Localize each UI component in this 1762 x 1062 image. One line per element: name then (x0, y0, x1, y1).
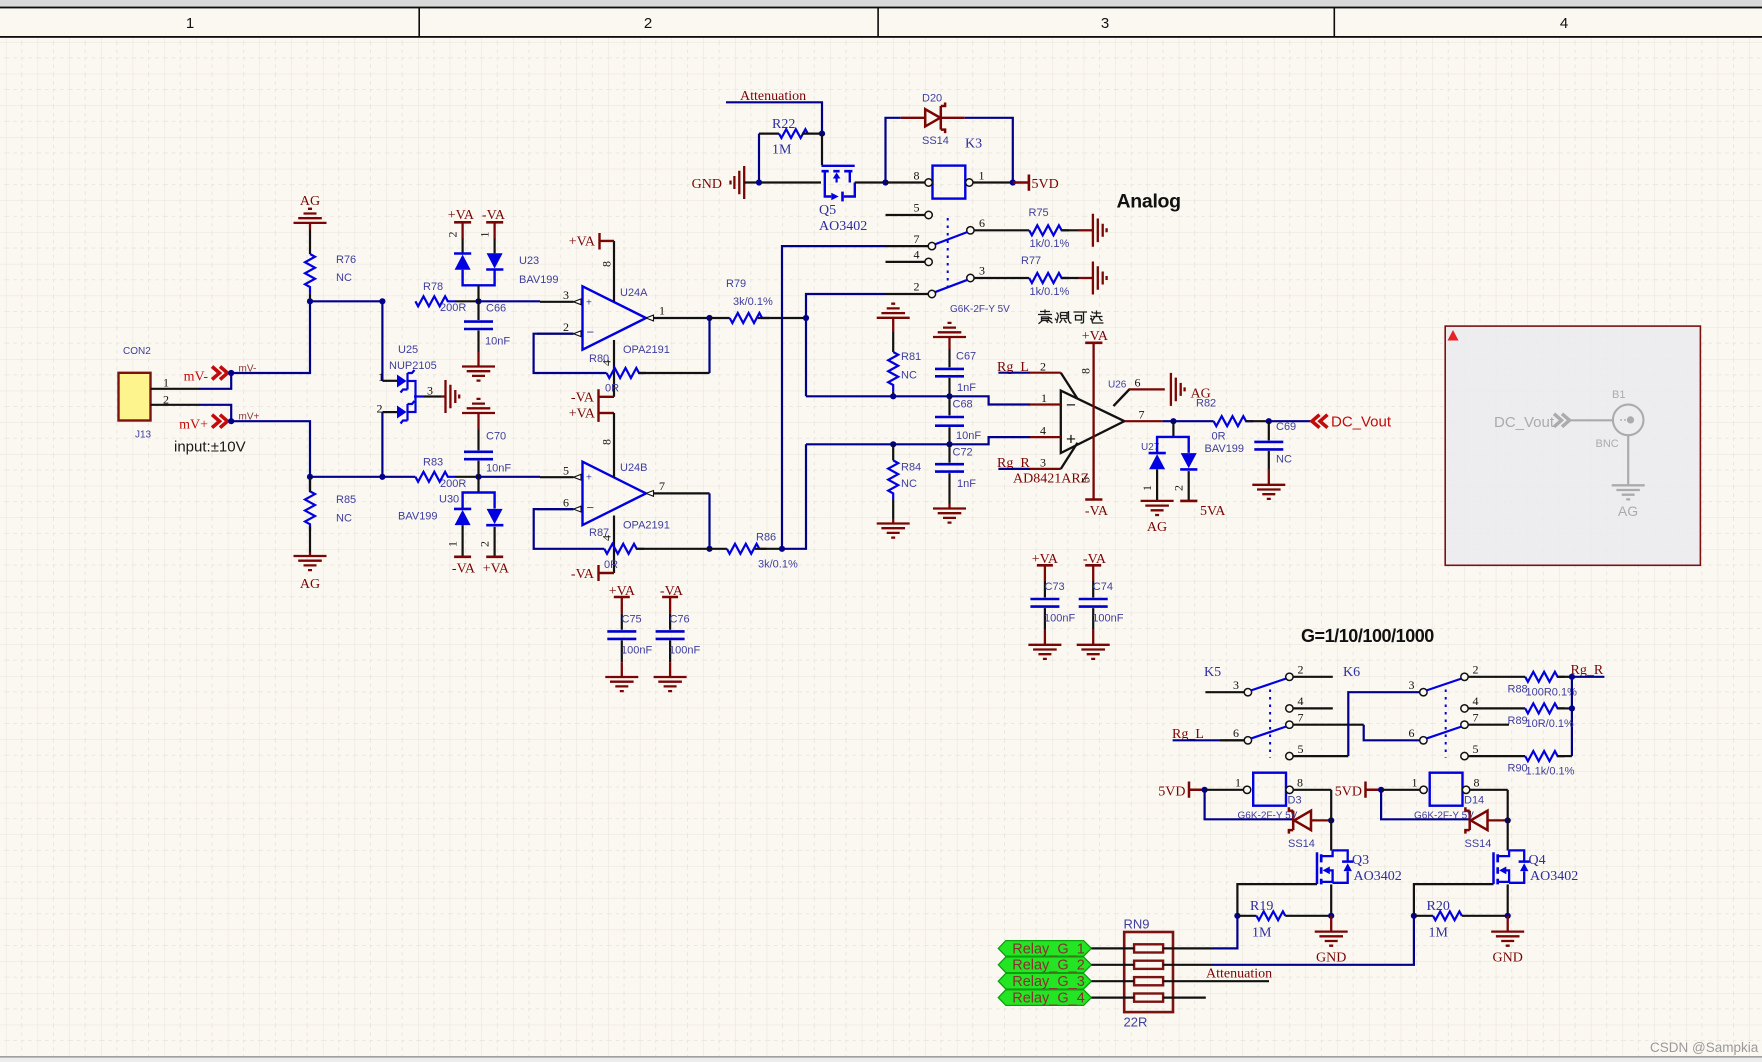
wire node to U24A pin3 (479, 300, 541, 302)
U25 diode 2 (bidirectional) (397, 406, 407, 419)
svg-text:10nF: 10nF (486, 463, 511, 475)
node R89 junction (1569, 705, 1575, 711)
U27 pin2 lead (1188, 471, 1190, 501)
pin 3 of U26 (1030, 443, 1078, 470)
svg-text:+VA: +VA (448, 208, 475, 223)
pin 3 of K5 (1205, 678, 1251, 696)
svg-text:AO3402: AO3402 (819, 219, 867, 234)
node U26 output / U27 (1170, 418, 1176, 424)
wire node to U24B pin5 (479, 476, 541, 478)
ground above C67 (933, 323, 966, 349)
U25 diode 1 (bidirectional) (397, 375, 407, 388)
pin 8 of K3 (886, 169, 933, 187)
svg-text:10nF: 10nF (485, 336, 510, 348)
svg-text:C68: C68 (953, 399, 973, 411)
svg-text:J13: J13 (135, 430, 152, 441)
svg-text:100nF: 100nF (669, 645, 700, 657)
svg-text:1: 1 (1235, 776, 1241, 790)
svg-text:+VA: +VA (483, 562, 510, 577)
svg-text:7: 7 (914, 232, 920, 246)
wire Rg_R out (1572, 676, 1605, 678)
wire mV+ from J13.2 down to node (199, 405, 231, 421)
power port -VA above U23 (482, 208, 506, 239)
svg-text:1nF: 1nF (957, 478, 976, 490)
node bus B / R79 (803, 315, 809, 321)
svg-text:8: 8 (1297, 776, 1303, 790)
node C68/C72 on plus row (946, 441, 952, 447)
capacitor C75 100nF (607, 613, 652, 662)
resistor R83 200R (415, 457, 466, 491)
svg-text:CON2: CON2 (123, 346, 151, 357)
ground AG at U26 pin6 (1171, 373, 1211, 406)
pin 4 of K6 (1461, 694, 1525, 712)
pin 7 (output) of U24B (646, 479, 710, 496)
wire K5.7 jog to K6.6 (1364, 725, 1420, 741)
svg-text:2: 2 (1172, 485, 1186, 491)
pin 4 of U26 (1030, 424, 1061, 438)
svg-text:1: 1 (186, 15, 194, 32)
svg-text:NC: NC (336, 513, 352, 525)
svg-text:Relay_G_1: Relay_G_1 (1012, 941, 1085, 957)
svg-text:7: 7 (659, 479, 665, 493)
ground below C72 (933, 504, 966, 523)
svg-text:3: 3 (1409, 678, 1415, 692)
svg-text:7: 7 (1298, 711, 1304, 725)
svg-text:K6: K6 (1343, 665, 1360, 680)
svg-text:-VA: -VA (452, 562, 476, 577)
pin 4 of K3 (stub) (886, 248, 933, 266)
pin 6 of K6 (1409, 726, 1428, 744)
svg-text:7: 7 (1473, 711, 1479, 725)
diode pair U27 BAV199 (1140, 421, 1197, 501)
svg-text:7: 7 (1139, 408, 1145, 422)
U23 common rail (463, 270, 495, 286)
svg-text:2: 2 (478, 541, 492, 547)
svg-text:C72: C72 (953, 447, 973, 459)
wire GND to Q5 (744, 181, 821, 183)
svg-text:R82: R82 (1196, 398, 1216, 410)
resistor R90 1.1k/0.1% (1508, 751, 1575, 777)
node C70/U30 (475, 474, 481, 480)
svg-text:CSDN @Sampkia: CSDN @Sampkia (1650, 1040, 1759, 1055)
wire RN9.4 stub (1163, 996, 1206, 998)
pin 1 of J13 (151, 376, 200, 390)
pin 6 of U24B (537, 496, 581, 513)
svg-text:R75: R75 (1029, 207, 1049, 219)
wire Rg_L to K5 pin6 (1173, 739, 1245, 741)
pin 2 of J13 (151, 393, 200, 407)
svg-text:NC: NC (1276, 454, 1292, 466)
svg-text:D20: D20 (922, 93, 942, 105)
op-amp U24A OPA2191 (583, 286, 670, 356)
header column ruler band (0, 0, 1762, 7)
svg-text:5: 5 (1079, 477, 1093, 483)
wire mV+ node to R85 node (231, 421, 310, 477)
svg-text:RN9: RN9 (1124, 917, 1150, 932)
wire R88 node down to R90 (1571, 677, 1573, 756)
resistor R87 0R (feedback) (589, 527, 710, 571)
svg-text:2: 2 (563, 320, 569, 334)
svg-text:5VD: 5VD (1032, 177, 1059, 192)
svg-text:4: 4 (1040, 424, 1046, 438)
pin 1 of K3 (966, 169, 1013, 187)
U23 diode left (cathode up) (454, 252, 471, 255)
svg-text:1: 1 (163, 376, 169, 390)
svg-text:K3: K3 (965, 137, 982, 152)
svg-text:SS14: SS14 (1288, 838, 1315, 850)
wire flag2 to RN9 (1091, 964, 1134, 966)
diode pair U30 BAV199 (398, 477, 503, 556)
svg-text:1k/0.1%: 1k/0.1% (1030, 238, 1070, 250)
svg-text:2: 2 (914, 280, 920, 294)
power port -VA at U24B pin4 (571, 565, 614, 582)
svg-text:BNC: BNC (1596, 438, 1619, 450)
mechanical link dotted line K3 (947, 218, 949, 289)
node R22/gate junction (819, 131, 825, 137)
svg-text:C73: C73 (1045, 581, 1065, 593)
relay driver D14/Q4 block (1366, 773, 1530, 946)
power port AG top-left (294, 194, 327, 230)
node mV+ junction (228, 418, 234, 424)
node at NUP2105 pin1 branch (379, 298, 385, 304)
svg-text:−: − (1066, 396, 1076, 415)
ground below R84 (877, 519, 910, 538)
U30 diode right (cathode bottom) (487, 509, 503, 524)
ground below C75 (605, 662, 638, 691)
resistor R85 NC (vertical) (305, 477, 356, 531)
svg-text:3: 3 (979, 264, 985, 278)
ghost wire (1571, 419, 1613, 421)
pin 5 of K5 (1286, 742, 1349, 760)
wire R76 to node (309, 294, 311, 302)
svg-text:R78: R78 (423, 281, 443, 293)
resistor R89 10R/0.1% (1508, 703, 1575, 730)
svg-text:BAV199: BAV199 (519, 274, 559, 286)
svg-text:NC: NC (901, 370, 917, 382)
svg-text:2: 2 (446, 232, 460, 238)
power port 5VA below U27 pin2 (1180, 501, 1226, 519)
svg-text:3k/0.1%: 3k/0.1% (733, 296, 773, 308)
svg-text:BAV199: BAV199 (398, 511, 438, 523)
svg-text:R76: R76 (336, 254, 356, 266)
svg-text:U24B: U24B (620, 462, 648, 474)
pin 6 of K3 (967, 216, 1029, 234)
svg-text:G6K-2F-Y 5V: G6K-2F-Y 5V (1414, 811, 1474, 822)
ground (earth) at U25 pin 3 (441, 380, 459, 413)
resistor R88 100R0.1% (1508, 672, 1578, 699)
resistor network RN9 22R (1124, 917, 1174, 1030)
wire U24A feedback loop (534, 334, 607, 373)
svg-text:Relay_G_4: Relay_G_4 (1012, 991, 1085, 1007)
net flag Relay_G_2 (998, 957, 1091, 974)
relay K3 coil box (933, 137, 983, 199)
svg-text:200R: 200R (440, 302, 466, 314)
svg-text:6: 6 (1233, 726, 1239, 740)
U25 pin 2 (382, 411, 397, 413)
resistor R82 0R (1196, 398, 1269, 443)
svg-text:C67: C67 (956, 351, 976, 363)
svg-text:8: 8 (1079, 368, 1093, 374)
svg-text:1: 1 (378, 370, 384, 384)
wire D20 right riser to 5VD node (965, 118, 1013, 183)
svg-text:5: 5 (914, 201, 920, 215)
text 衰减可选 (CJK drawn as strokes) (1038, 310, 1104, 324)
wire minus-input row (bus B corner to AD8421 pin1) (806, 396, 1030, 404)
svg-text:Q4: Q4 (1529, 853, 1546, 868)
svg-text:Attenuation: Attenuation (1206, 967, 1272, 982)
svg-text:G6K-2F-Y 5V: G6K-2F-Y 5V (950, 304, 1010, 315)
svg-text:10R/0.1%: 10R/0.1% (1526, 718, 1575, 730)
wire node down to U25 pin1 (381, 301, 383, 381)
node R84 on plus row (890, 441, 896, 447)
node GND/R22 junction (756, 179, 762, 185)
svg-text:C70: C70 (486, 431, 506, 443)
relay driver D3/Q3 block (1189, 773, 1353, 946)
wire plus-input row (bus B foot to AD8421 pin4) (806, 437, 1030, 444)
svg-text:3: 3 (1101, 15, 1109, 32)
svg-text:1: 1 (1140, 485, 1154, 491)
node U24B feedback junction (706, 546, 712, 552)
power port +VA above U26 (1082, 329, 1109, 344)
svg-text:1: 1 (478, 232, 492, 238)
U27 diode right (cathode bottom) (1181, 453, 1197, 468)
svg-text:2: 2 (1298, 663, 1304, 677)
pin 7 of K3 (886, 232, 936, 250)
capacitor C69 NC (1254, 421, 1296, 469)
ground above R81 (877, 304, 910, 332)
svg-text:-VA: -VA (571, 567, 595, 582)
svg-text:8: 8 (600, 439, 614, 445)
node U24A output (706, 315, 712, 321)
net flag Relay_G_1 (998, 941, 1091, 958)
power port -VA at U24A pin4 (571, 389, 614, 422)
node C66/U23 (475, 298, 481, 304)
relay coil D3 G6K-2F-Y 5V (1238, 795, 1302, 822)
pin 5 of K3 (stub) (886, 201, 933, 219)
switch arm K3 7-6 (935, 232, 968, 245)
pin 3 of K6 (1409, 678, 1428, 696)
svg-text:SS14: SS14 (1465, 838, 1492, 850)
svg-text:2: 2 (163, 393, 169, 407)
wire node up to U25 pin2 (381, 412, 383, 477)
pin 5 of K6 (1461, 742, 1525, 760)
svg-text:−: − (587, 325, 595, 340)
svg-text:2: 2 (1040, 360, 1046, 374)
svg-text:100nF: 100nF (621, 645, 652, 657)
relay coil D14 G6K-2F-Y 5V (1414, 795, 1484, 822)
node R86 output at bus A (779, 546, 785, 552)
svg-text:1nF: 1nF (957, 382, 976, 394)
transistor Q3 AO3402 (1352, 853, 1402, 884)
U23 pin2 lead from +VA (462, 238, 464, 253)
ground below C76 (654, 662, 687, 691)
svg-text:R19: R19 (1250, 899, 1273, 914)
ground above C70 (462, 399, 495, 430)
svg-text:5VD: 5VD (1158, 784, 1185, 799)
svg-text:1M: 1M (1429, 926, 1449, 941)
svg-text:GND: GND (1493, 951, 1523, 966)
ground below C69 (1252, 469, 1285, 499)
svg-text:6: 6 (1135, 376, 1141, 390)
svg-text:22R: 22R (1124, 1015, 1148, 1030)
resistor R84 NC (vertical) (888, 444, 921, 519)
resistor R20 1M (1427, 899, 1450, 941)
wire K6.3 to K5.5 (1348, 692, 1419, 756)
wire node to NUP/R78 node (310, 300, 382, 302)
pin 8 of U26 (supply) (1079, 343, 1094, 500)
svg-text:R83: R83 (423, 457, 443, 469)
power port 5VD (1013, 175, 1059, 193)
svg-text:C66: C66 (486, 303, 506, 315)
svg-text:NC: NC (336, 272, 352, 284)
node Rg_R junction (1569, 674, 1575, 680)
node R76/mV- junction (307, 298, 313, 304)
ground below C73 (1028, 630, 1061, 659)
U25 pin 1 (382, 380, 397, 382)
ghost wire to AG (1627, 435, 1629, 484)
svg-text:−: − (587, 500, 595, 515)
node at NUP2105 pin2 branch (379, 474, 385, 480)
svg-text:R22: R22 (772, 117, 795, 132)
svg-text:4: 4 (1560, 15, 1568, 32)
svg-text:NUP2105: NUP2105 (389, 360, 437, 372)
svg-text:1: 1 (979, 169, 985, 183)
power port +VA below U30 (483, 557, 510, 577)
svg-text:mV-: mV- (184, 370, 209, 385)
wire R78 to C66 node (455, 300, 479, 302)
wire R85 to AG bottom (309, 526, 311, 552)
switch arm K5 3-2 (1251, 679, 1286, 691)
svg-text:U30: U30 (439, 494, 459, 506)
bottom scrollbar strip (0, 1056, 1762, 1057)
ground at R77 (1079, 262, 1107, 295)
svg-text:2: 2 (377, 401, 383, 415)
resistor R81 NC (vertical) (888, 332, 921, 396)
switch arm K5 6-7 (1251, 727, 1286, 739)
pin 7 of K6 (stub) (1461, 711, 1509, 729)
svg-text:G6K-2F-Y 5V: G6K-2F-Y 5V (1238, 811, 1298, 822)
pin 3 of K3 (967, 264, 1029, 282)
U30 pin2 lead (494, 527, 496, 556)
node C67/C68 on minus row (946, 393, 952, 399)
svg-text:U23: U23 (519, 255, 539, 267)
svg-text:R77: R77 (1021, 255, 1041, 267)
svg-text:0R: 0R (604, 559, 618, 571)
pin 2 of K6 (1461, 663, 1525, 681)
svg-text:GND: GND (1316, 951, 1346, 966)
svg-text:input:±10V: input:±10V (174, 439, 246, 456)
svg-text:AG: AG (300, 194, 320, 209)
resistor R76 NC (vertical) (305, 254, 356, 294)
U23 diode right (cathode down) (487, 253, 503, 268)
svg-text:10nF: 10nF (956, 430, 981, 442)
svg-text:C69: C69 (1276, 421, 1296, 433)
svg-text:R20: R20 (1427, 899, 1450, 914)
switch arm K6 6-7 (1426, 727, 1461, 739)
svg-text:BAV199: BAV199 (1205, 443, 1245, 455)
svg-text:100nF: 100nF (1092, 613, 1123, 625)
diode pair U23 BAV199 (446, 232, 559, 302)
svg-text:8: 8 (1474, 776, 1480, 790)
svg-text:1M: 1M (772, 143, 792, 158)
capacitor C66 10nF (464, 301, 510, 352)
node C69 junction (1266, 418, 1272, 424)
ground below C66 (462, 352, 495, 381)
wire RN9.3 Attenuation stub (1163, 980, 1269, 982)
capacitor C73 100nF (1030, 581, 1075, 630)
svg-text:B1: B1 (1612, 389, 1625, 401)
resistor R19 1M (1250, 899, 1273, 941)
svg-text:C74: C74 (1093, 581, 1113, 593)
pin 4 of K5 (stub) (1286, 694, 1333, 712)
resistor R75 1k/0.1% (1029, 207, 1079, 250)
in-amp U26 AD8421ARZ triangle (1013, 380, 1127, 487)
svg-text:D14: D14 (1464, 795, 1484, 807)
wire flag3 to RN9 (1091, 980, 1134, 982)
capacitor C76 100nF (656, 613, 701, 662)
capacitor C70 10nF (464, 430, 511, 477)
svg-text:4: 4 (1298, 694, 1304, 708)
svg-text:2: 2 (1473, 663, 1479, 677)
node R85/mV+ junction (307, 474, 313, 480)
mechanical link dotted K5 (1269, 690, 1271, 758)
wire U24B feedback loop (534, 509, 605, 549)
svg-text:200R: 200R (440, 478, 466, 490)
svg-text:Q3: Q3 (1352, 853, 1369, 868)
U27 pin1 lead (1156, 469, 1158, 500)
power port -VA above C74 (1083, 552, 1107, 581)
connector J13 CON2 (119, 346, 152, 441)
capacitor C67 1nF (935, 349, 976, 396)
wire U26 out to R82 (1162, 420, 1213, 422)
wire RN9.2 to R20 net (long) (1163, 964, 1212, 966)
svg-text:6: 6 (979, 216, 985, 230)
pin 8 of U24A (600, 241, 615, 302)
svg-text:D3: D3 (1288, 795, 1302, 807)
power port GND left (692, 166, 745, 199)
svg-text:1: 1 (1041, 391, 1047, 405)
switch arm K6 3-2 (1426, 679, 1461, 691)
port mV- (chevrons + text) (184, 367, 228, 385)
svg-text:3: 3 (1040, 456, 1046, 470)
wire flag1 to RN9 (1091, 947, 1134, 949)
svg-text:NC: NC (901, 478, 917, 490)
wire R86 junction over to bus B foot (782, 444, 806, 549)
wire U24A output to feedback (708, 318, 710, 373)
pin 6 of K5 (1220, 726, 1252, 744)
pin 2 of K5 (1286, 663, 1333, 681)
pin 1 of U26 (1030, 391, 1061, 405)
svg-text:OPA2191: OPA2191 (623, 520, 670, 532)
ground below C74 (1077, 630, 1110, 659)
svg-text:AG: AG (300, 577, 320, 592)
svg-text:1M: 1M (1252, 926, 1272, 941)
svg-text:R85: R85 (336, 494, 356, 506)
U25 common rail (414, 381, 424, 412)
mechanical link dotted K6 (1445, 690, 1447, 758)
svg-text:5: 5 (563, 464, 569, 478)
svg-text:R79: R79 (726, 278, 746, 290)
svg-text:AO3402: AO3402 (1354, 869, 1402, 884)
diode D20 SS14 (901, 93, 965, 148)
transistor Q5 AO3402 (horizontal) (819, 134, 867, 234)
svg-text:Relay_G_2: Relay_G_2 (1012, 958, 1085, 974)
wire to DC_Vout port (1269, 420, 1311, 422)
resistor R80 0R (feedback) (589, 353, 710, 395)
resistor R78 200R (415, 281, 466, 314)
wire RN9.1 to R19 net (1163, 947, 1212, 949)
power port -VA below U26 (1085, 500, 1109, 520)
